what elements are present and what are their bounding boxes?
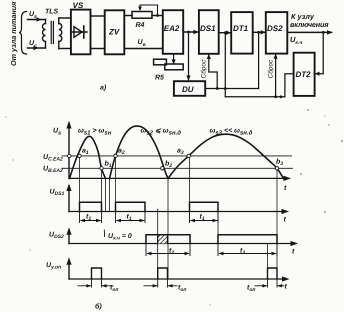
- node: label omega1: [78, 128, 112, 137]
- svg-text:t3: t3: [240, 248, 245, 257]
- node b1: [100, 167, 103, 170]
- dimension t_op 1: [78, 278, 113, 288]
- pulse DS2-A: [146, 235, 190, 244]
- svg-text:б): б): [95, 303, 102, 311]
- wire: EA2 output to DS1 with arrow: [183, 30, 199, 34]
- wire: EA2 output down to DU with arrow: [186, 32, 190, 81]
- wire: reset branch to DS2 with arrow: [274, 54, 278, 97]
- svg-text:TLS: TLS: [45, 9, 59, 16]
- tick mark: [103, 230, 105, 237]
- node a1: [78, 154, 81, 157]
- block ZV: [105, 10, 125, 54]
- wire: EA2 bottom to R5 with arrow: [172, 54, 176, 65]
- level line U_B.EA2: [62, 167, 293, 169]
- level line U_C.EA2: [62, 155, 292, 157]
- diode inside VS: [72, 26, 88, 38]
- svg-text:DT2: DT2: [296, 70, 312, 79]
- junction on output: [322, 31, 325, 34]
- svg-text:t2: t2: [169, 248, 174, 257]
- svg-text:a2: a2: [118, 148, 125, 157]
- svg-text:UВ.ЕА2: UВ.ЕА2: [43, 166, 63, 175]
- node: t label row4: [285, 284, 288, 291]
- wire: output junction down to DT2 with arrow: [315, 32, 324, 75]
- wire: projection up pulse3 left: [267, 244, 269, 280]
- control block DU: [174, 81, 205, 96]
- transformer TL5 core: [51, 22, 53, 44]
- node: label б): [95, 303, 102, 311]
- node: t label row2: [284, 217, 287, 224]
- node: label Сброс (DS2): [267, 59, 274, 79]
- pulse DS1-2: [116, 202, 146, 211]
- svg-text:DU: DU: [182, 85, 194, 94]
- junction on EA2 output: [187, 31, 190, 34]
- wire: DS1 output to DT1 with arrow: [219, 31, 232, 35]
- wire: secondary bottom to VS: [59, 48, 71, 50]
- dimension t3: [218, 244, 277, 256]
- pulse shaper block DS1: [199, 10, 219, 54]
- svg-text:Uг: Uг: [29, 11, 37, 20]
- wire: input bottom with arrow: [28, 46, 46, 50]
- node: axis label U_у.оп: [46, 262, 61, 271]
- wire: projection a3: [189, 158, 191, 222]
- junction on L1 crossing: [224, 87, 227, 90]
- wire: projection zero crossing h2-h3: [167, 178, 169, 279]
- svg-text:Uу.оп: Uу.оп: [46, 262, 61, 271]
- axis: U_DS2 vertical: [66, 227, 71, 243]
- svg-text:ωs2 ⩽ ωsн.д: ωs2 ⩽ ωsн.д: [141, 128, 182, 137]
- curve: half-wave 1: [70, 136, 106, 178]
- transformer TL5 primary winding: [43, 20, 46, 49]
- wire: reset branch to DS1 with arrow: [207, 54, 218, 89]
- node: label omega2: [141, 128, 182, 137]
- pulse UOP-2: [158, 268, 168, 279]
- node a3: [187, 154, 190, 157]
- svg-text:DS2: DS2: [267, 24, 283, 33]
- axis: U_S time axis: [69, 176, 291, 181]
- resistor R4 (variable): [132, 12, 152, 19]
- dimension t_op 3: [255, 278, 284, 288]
- node: label omega3: [210, 128, 253, 137]
- resistor R5 tap box: [154, 59, 167, 65]
- svg-text:ZV: ZV: [108, 28, 120, 37]
- svg-text:t: t: [284, 217, 287, 224]
- pulse UOP-3: [268, 268, 278, 279]
- transformer TL5 label: [45, 9, 59, 16]
- svg-text:t: t: [284, 185, 287, 192]
- wire: projection h2 start: [109, 178, 111, 211]
- transformer TL5 secondary winding: [59, 18, 62, 49]
- axis: U_DS2 time axis: [69, 241, 298, 246]
- wire: projection b1: [101, 170, 103, 212]
- svg-text:DT1: DT1: [233, 24, 249, 33]
- scan specks: [6, 109, 343, 305]
- dimension t1 pulse2: [116, 212, 146, 223]
- wire: DT2 left to reset bus: [285, 74, 294, 97]
- wire: reset bus L1: [205, 88, 258, 90]
- svg-text:b3: b3: [276, 158, 283, 168]
- wire: projection DS1 p3 fall: [217, 212, 219, 244]
- svg-text:a3: a3: [177, 148, 184, 157]
- svg-text:включения: включения: [290, 20, 329, 29]
- svg-text:tоп: tоп: [247, 285, 255, 294]
- axis: U_DS1 time axis: [69, 209, 289, 214]
- svg-text:От узла питания: От узла питания: [9, 1, 18, 66]
- node: voltage label U_C: [29, 40, 37, 49]
- node b3: [275, 167, 278, 170]
- pulse DS1-3: [190, 202, 219, 211]
- node: t label row3: [292, 249, 295, 256]
- svg-text:UDS1: UDS1: [50, 189, 65, 198]
- dimension t2: [146, 244, 190, 256]
- svg-text:R4: R4: [136, 22, 145, 29]
- axis: U_у.оп time axis: [69, 276, 290, 281]
- wire: DS2 output to К узлу включения with arrow: [287, 30, 333, 34]
- svg-text:Uв: Uв: [138, 39, 146, 48]
- dimension t_op 2: [144, 278, 177, 288]
- wire: projection b3: [276, 170, 278, 279]
- wire: DT1 output to DS2 with arrow: [253, 30, 266, 34]
- wire: projection a2: [115, 158, 117, 212]
- svg-text:UDS2: UDS2: [49, 232, 64, 241]
- junction L2: [274, 95, 277, 98]
- node: label К узлу включения: [290, 12, 329, 29]
- node: level label U_B.EA2: [43, 166, 63, 175]
- pulse DS1-1: [80, 202, 102, 211]
- wire: reset bus L2: [225, 96, 285, 98]
- axis: U_DS1 vertical: [66, 184, 71, 212]
- svg-text:tоп: tоп: [110, 285, 118, 294]
- wire: input top with arrow: [28, 17, 46, 21]
- delay block DT2: [294, 53, 315, 96]
- node: label U_B: [138, 39, 146, 48]
- wire: VS to ZV top: [91, 15, 105, 17]
- svg-text:Сброс: Сброс: [267, 59, 274, 79]
- node: label а): [100, 84, 107, 92]
- wire: ZV to R4: [124, 15, 132, 17]
- dimension t1 pulse1: [80, 212, 102, 223]
- svg-text:a1: a1: [82, 148, 89, 157]
- hatch borders: [157, 235, 159, 244]
- node: label U_к.ч = 0: [108, 233, 132, 242]
- rectifier block VS: [71, 10, 91, 55]
- delay block DT1: [231, 12, 253, 54]
- junction L1: [216, 87, 219, 90]
- svg-text:b2: b2: [165, 160, 172, 170]
- svg-text:R5: R5: [155, 75, 164, 82]
- node: label Сброс (DS1): [200, 59, 207, 79]
- svg-text:UС.ЕА2: UС.ЕА2: [43, 154, 63, 163]
- comparator block EA2: [163, 10, 183, 54]
- node: От узла питания source label: [9, 1, 18, 66]
- wire: DT1 output junction down to L1: [258, 32, 260, 88]
- svg-text:Uк.ч: Uк.ч: [290, 35, 302, 46]
- hatched region DS2: [158, 235, 168, 244]
- curve: half-wave 3: [168, 134, 284, 178]
- svg-text:Us: Us: [53, 128, 61, 137]
- junction L2 end: [280, 95, 283, 98]
- wire: R4 to EA2: [152, 15, 163, 17]
- svg-text:Сброс: Сброс: [200, 59, 207, 79]
- pulse shaper block DS2: [266, 12, 288, 54]
- node: axis label U_DS2: [49, 232, 64, 241]
- pulse DS2-B: [218, 235, 277, 244]
- node: axis label U_DS1: [50, 189, 65, 198]
- svg-text:DS1: DS1: [200, 24, 216, 33]
- svg-text:tоп: tоп: [178, 285, 186, 294]
- pulse UOP-1: [92, 268, 102, 279]
- wire: projection hatch left: [157, 209, 159, 268]
- wire: projection h1 end: [105, 178, 107, 211]
- svg-text:EA2: EA2: [164, 24, 180, 33]
- svg-text:а): а): [100, 84, 107, 92]
- wire: projection a1: [79, 158, 81, 212]
- junction on R4 output: [156, 14, 159, 17]
- junction DS1 output: [224, 31, 227, 34]
- wiper of R4: [138, 5, 157, 16]
- svg-text:VS: VS: [73, 1, 84, 10]
- node: axis label U_S: [53, 128, 61, 137]
- wire: ZV to EA2 bottom (U_B): [124, 48, 163, 50]
- brace: [19, 12, 27, 55]
- resistor R5: [165, 64, 183, 70]
- curve: half-wave 2: [110, 126, 169, 178]
- axis: U_у.оп vertical: [66, 257, 71, 279]
- wire: VS to ZV bottom: [91, 48, 105, 50]
- svg-text:t: t: [292, 249, 295, 256]
- node: circle at axis level U_C: [68, 154, 71, 157]
- wire: secondary top to VS: [59, 17, 71, 19]
- wire: DS1 output down to reset bus L2: [224, 33, 226, 97]
- junction DT1 output: [257, 31, 260, 34]
- node b2: [161, 167, 164, 170]
- node: t label row1: [284, 185, 287, 192]
- svg-text:t: t: [285, 284, 288, 291]
- svg-text:Uк.ч = 0: Uк.ч = 0: [108, 233, 132, 242]
- axis: U_S vertical: [66, 121, 71, 179]
- node: level label U_C.EA2: [43, 154, 63, 163]
- rectifier VS label: [73, 1, 84, 10]
- svg-text:ωs1 > ωsн: ωs1 > ωsн: [78, 128, 112, 137]
- node: label U_к.ч: [290, 35, 302, 46]
- dimension t4 pulse3: [190, 212, 219, 223]
- node: voltage label U_Г: [29, 11, 37, 20]
- node a2: [114, 154, 117, 157]
- svg-text:b1: b1: [105, 160, 112, 170]
